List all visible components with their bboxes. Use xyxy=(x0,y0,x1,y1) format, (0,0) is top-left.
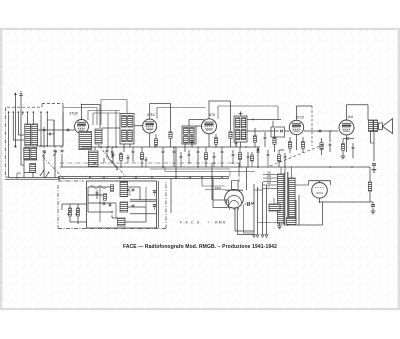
svg-text:6TQ8: 6TQ8 xyxy=(70,111,78,115)
phono capacitor C17 xyxy=(132,189,134,208)
svg-text:≈: ≈ xyxy=(208,221,210,225)
phono resistor R11 xyxy=(103,194,106,201)
dashed AVC diagonal xyxy=(270,144,325,166)
tube V5 6L6 xyxy=(339,115,354,135)
tuner wiring horizontals xyxy=(5,135,63,179)
AVC dash-dot wire xyxy=(60,162,240,164)
pickup coil L8 xyxy=(120,202,128,212)
caption xyxy=(123,244,277,250)
V4 grid input xyxy=(247,130,289,133)
phono resistor R10 xyxy=(110,185,113,192)
capacitor C22 xyxy=(247,152,250,167)
V2 cathode resistor R3 xyxy=(150,133,158,147)
V3 cathode parts xyxy=(196,126,218,147)
output transformer T4 xyxy=(369,120,378,132)
grid resistor R9 xyxy=(320,138,323,155)
HT output wire xyxy=(319,201,373,203)
T5 primary taps xyxy=(263,172,278,189)
capacitor C10 xyxy=(221,147,224,162)
pot wiring xyxy=(62,204,87,224)
V5 cathode parts xyxy=(341,136,355,159)
T5 feed wires from bus xyxy=(212,167,277,223)
ground symbol near switch xyxy=(277,223,282,229)
motor coil L9 xyxy=(118,218,126,226)
wire y171.5 xyxy=(150,167,255,177)
tone pot P2 xyxy=(76,204,80,222)
mains switch xyxy=(269,198,280,211)
svg-text:6L6: 6L6 xyxy=(348,115,354,119)
tuning eye tube V6 xyxy=(215,186,243,210)
V2 anode top loop xyxy=(134,104,205,132)
capacitor C7 xyxy=(162,147,165,162)
phono chassis box xyxy=(87,178,172,228)
eye tube feed wires xyxy=(202,178,239,190)
volume pot P1 xyxy=(68,204,72,222)
filter capacitor C18 xyxy=(371,202,376,214)
chassis bus junction dots xyxy=(89,177,223,179)
bus junction dots xyxy=(112,146,353,168)
V4 anode top loop xyxy=(297,106,313,146)
capacitor C6 xyxy=(112,152,115,162)
capacitor C20 xyxy=(191,137,194,147)
svg-text:6TE4: 6TE4 xyxy=(147,113,155,117)
IF1 connections xyxy=(102,128,130,152)
tuner wiring verticals xyxy=(9,107,63,178)
V1 anode top loop xyxy=(81,104,100,128)
chassis bus double xyxy=(58,177,229,179)
transformer top stubs xyxy=(281,167,292,178)
IF2 connections xyxy=(185,120,204,153)
tuning gang capacitor C1 xyxy=(43,146,46,160)
resistor R13 xyxy=(140,147,143,167)
V1 cathode parts xyxy=(81,134,83,147)
oscillator coil L6b xyxy=(89,151,99,167)
decorative script note xyxy=(90,186,106,189)
aerial coil L1 xyxy=(25,124,31,146)
svg-text:50000: 50000 xyxy=(128,188,132,196)
pickup coil L7 xyxy=(120,182,128,197)
svg-text:RM6: RM6 xyxy=(215,221,226,225)
capacitor C13 xyxy=(284,153,287,167)
T5 primary winding xyxy=(278,174,284,224)
phono wiring xyxy=(88,187,156,222)
aerial coil L2 xyxy=(32,124,38,146)
resistor R5 xyxy=(229,132,232,147)
svg-text:F.A.C.E.: F.A.C.E. xyxy=(180,221,203,225)
band coil L4 xyxy=(31,148,37,160)
capacitor C11 xyxy=(264,132,267,147)
capacitor C14 xyxy=(343,137,354,140)
chassis dash-dot left edge xyxy=(6,107,11,177)
resistor R2 xyxy=(119,152,122,167)
band coil L3 xyxy=(24,148,30,160)
band switch arrow S1 xyxy=(40,170,49,178)
IF transformer T1 xyxy=(120,114,134,145)
grid wire to V1 xyxy=(38,112,75,146)
eye tube socket box xyxy=(213,178,229,207)
capacitor C4 xyxy=(43,120,54,146)
mains leads xyxy=(253,182,269,237)
aerial board terminals xyxy=(8,111,49,115)
rectifier filament connections xyxy=(295,181,331,202)
capacitor C12 xyxy=(257,147,260,158)
tube V2 6TE4 xyxy=(143,113,157,133)
V5 anode top loop xyxy=(347,105,369,120)
filament loop wiring xyxy=(295,195,323,225)
chassis dashed line top xyxy=(7,104,63,112)
capacitor C9 xyxy=(197,147,200,162)
V3 anode top loop xyxy=(209,101,279,131)
ground terminal xyxy=(19,92,23,107)
resistor R4 xyxy=(169,132,172,147)
svg-text:FACE — Radiofonografo Mod. RMG: FACE — Radiofonografo Mod. RMGB. – Produ… xyxy=(123,244,277,250)
resistor R7 xyxy=(273,128,276,152)
resistor R8 xyxy=(277,150,284,167)
HT bus y167 xyxy=(60,166,370,168)
IF transformer T3 xyxy=(234,112,247,143)
osc gang link dashed xyxy=(98,145,126,177)
capacitor C8 xyxy=(173,147,176,162)
speaker field wiring xyxy=(371,132,375,162)
phono caps on right edge xyxy=(153,191,156,210)
oscillator tank coil L10 xyxy=(79,132,92,150)
resistor R15 xyxy=(238,147,241,167)
tube V3 6T8 xyxy=(202,113,217,134)
B+ wire y147 xyxy=(95,146,260,148)
phono unit dashed enclosure xyxy=(58,181,166,229)
tuning gang capacitor C2 xyxy=(54,146,57,160)
tuner bottom wiring xyxy=(24,160,62,178)
top wiring bundle xyxy=(63,100,127,126)
svg-text:6TC5: 6TC5 xyxy=(296,115,304,119)
winding label 50000 xyxy=(128,188,132,196)
V5 grid coupling xyxy=(304,130,338,152)
capacitor C21 xyxy=(132,147,135,162)
tube V4 6TC5 xyxy=(289,115,304,134)
capacitor C15 to ground xyxy=(372,164,377,173)
T5 secondary winding xyxy=(289,178,295,222)
eye tube grid cap xyxy=(245,201,255,206)
V4 cathode parts xyxy=(288,135,304,153)
watermark text FACE RM6 xyxy=(180,221,226,225)
extra small caps row xyxy=(127,150,270,168)
osc area verticals xyxy=(94,111,117,164)
IF3 top feed xyxy=(236,119,281,147)
field resistor R12 xyxy=(368,167,371,202)
trimmer capacitor C3 xyxy=(61,146,63,160)
IF transformer T2 xyxy=(182,126,196,144)
rectifier tube V7 xyxy=(309,181,331,198)
capacitor C19 xyxy=(235,139,238,147)
antenna terminal xyxy=(14,92,17,107)
wires joining buses xyxy=(82,147,286,177)
power transformer T5 core xyxy=(285,172,288,226)
wires below eye tube xyxy=(235,205,255,235)
osc padder C5 xyxy=(106,147,114,158)
phono capacitor C16 xyxy=(96,190,99,199)
tube V1 6TE8 xyxy=(70,111,89,133)
resistor R6 xyxy=(253,128,256,147)
detector diode network box xyxy=(271,121,284,137)
loudspeaker LS1 xyxy=(379,119,393,134)
band coil L5 xyxy=(30,164,36,173)
wave change link dashed xyxy=(43,157,66,181)
T5 bottom winding xyxy=(287,218,297,226)
oscillator coil L6 xyxy=(95,129,102,144)
phono inner wiring extra xyxy=(88,187,146,222)
resistor R14 xyxy=(204,147,207,167)
svg-text:6T8: 6T8 xyxy=(209,113,215,117)
